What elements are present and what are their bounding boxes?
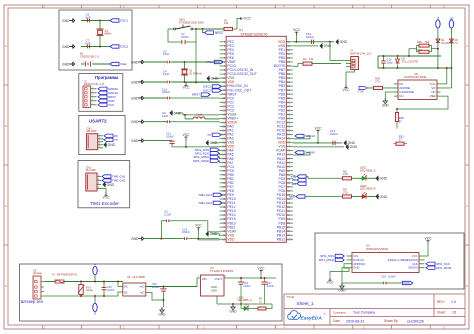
svg-text:VCC: VCC	[342, 88, 350, 92]
svg-text:79: 79	[287, 153, 290, 157]
svg-text:GND: GND	[131, 139, 139, 143]
svg-text:A: A	[466, 44, 468, 48]
wire vdd row SWD	[293, 142, 342, 144]
diode D6	[449, 39, 453, 42]
svg-text:35: 35	[222, 177, 225, 181]
svg-text:65: 65	[287, 96, 290, 100]
svg-text:12: 12	[222, 84, 225, 88]
svg-text:20: 20	[222, 116, 225, 120]
svg-text:MF-PSMF300/TW: MF-PSMF300/TW	[57, 273, 77, 276]
capacitor C6	[81, 20, 100, 22]
svg-text:REV:: REV:	[437, 300, 445, 304]
inductor L1	[185, 118, 193, 120]
svg-text:100nF: 100nF	[182, 230, 190, 234]
svg-text:GND: GND	[131, 237, 139, 241]
svg-text:25: 25	[222, 137, 225, 141]
svg-text:61: 61	[287, 80, 290, 84]
svg-text:B1: B1	[449, 16, 453, 20]
node junction SW1b	[202, 28, 204, 30]
EasyEDA logo	[288, 311, 301, 320]
net flag TIM1-CH2 (box)	[102, 179, 111, 182]
resistor R26	[419, 44, 429, 47]
svg-text:100p: 100p	[387, 60, 393, 64]
svg-text:VCC: VCC	[195, 224, 203, 228]
capacitor C16b	[240, 278, 242, 282]
svg-text:49: 49	[222, 233, 225, 237]
svg-text:70: 70	[287, 116, 290, 120]
resistor R1	[224, 27, 233, 30]
svg-text:87: 87	[287, 185, 290, 189]
svg-text:OSC2: OSC2	[120, 45, 129, 49]
svg-text:TCLLZ15VTR: TCLLZ15VTR	[402, 59, 419, 63]
svg-text:U1: U1	[239, 28, 243, 32]
svg-text:52: 52	[287, 44, 290, 48]
net flags J2	[98, 87, 107, 90]
wire WP GND down	[330, 264, 349, 277]
svg-text:TIM1-CH1: TIM1-CH1	[198, 193, 212, 197]
svg-text:100nF: 100nF	[181, 35, 189, 39]
svg-text:44: 44	[222, 213, 225, 217]
wire OSC2	[100, 46, 110, 48]
svg-text:GND: GND	[107, 183, 115, 187]
svg-text:95: 95	[287, 217, 290, 221]
gnd net flag SWD b	[293, 146, 344, 148]
svg-text:GND: GND	[131, 96, 139, 100]
connector J7	[351, 57, 359, 70]
svg-text:53: 53	[287, 48, 290, 52]
svg-text:10k: 10k	[309, 57, 314, 61]
wire VIN	[197, 278, 201, 287]
svg-text:TX: TX	[207, 133, 211, 137]
svg-text:N: N	[93, 312, 97, 314]
svg-text:54: 54	[287, 52, 290, 56]
net flag led1	[297, 175, 306, 178]
svg-text:Штекер зел: Штекер зел	[21, 299, 44, 304]
svg-text:72: 72	[287, 124, 290, 128]
svg-text:HDR-M-2.54_1x3: HDR-M-2.54_1x3	[350, 51, 371, 55]
net flag SPI1_SCK	[210, 152, 219, 155]
net flag +VCC	[233, 19, 240, 30]
svg-text:D: D	[5, 284, 7, 288]
svg-text:91: 91	[287, 201, 290, 205]
diode D4	[436, 39, 440, 42]
net flag OSC1	[110, 19, 119, 22]
svg-text:31: 31	[222, 161, 225, 165]
wire flash gnd	[342, 268, 347, 283]
svg-text:75: 75	[287, 137, 290, 141]
svg-text:GND: GND	[382, 104, 390, 108]
wire row62	[172, 61, 220, 63]
module U5 HLK-5M05	[123, 283, 146, 296]
svg-text:SPI1_MOSI: SPI1_MOSI	[436, 266, 452, 270]
svg-text:63: 63	[287, 88, 290, 92]
svg-text:80: 80	[287, 157, 290, 161]
connector CN2	[86, 173, 97, 191]
svg-text:29: 29	[222, 153, 225, 157]
gnd net flag top a	[336, 40, 339, 44]
svg-text:HDR-M-2.54_1x5: HDR-M-2.54_1x5	[84, 82, 105, 86]
svg-text:67: 67	[287, 104, 290, 108]
svg-text:PB12: PB12	[277, 237, 285, 241]
svg-text:100nF: 100nF	[388, 275, 396, 279]
svg-text:10: 10	[222, 76, 225, 80]
gnd net flag VSSA	[170, 111, 173, 115]
svg-text:74: 74	[287, 132, 290, 136]
wire neutral rail	[44, 292, 123, 296]
capacitor C19	[342, 282, 384, 284]
MCU U1 body	[226, 36, 286, 242]
svg-text:LED-0805_G: LED-0805_G	[360, 168, 376, 172]
ground gnd2 power	[232, 304, 234, 307]
svg-text:VCC: VCC	[102, 196, 110, 200]
svg-text:28: 28	[222, 149, 225, 153]
svg-text:GND: GND	[159, 313, 167, 317]
svg-text:73: 73	[287, 128, 290, 132]
gnd net flag pin10	[207, 76, 210, 80]
svg-text:TC1262-3.3VDETR: TC1262-3.3VDETR	[210, 269, 233, 273]
svg-text:2.2uF: 2.2uF	[164, 212, 171, 216]
svg-text:99: 99	[287, 233, 290, 237]
wire U8 vee	[397, 96, 448, 109]
svg-text:62: 62	[287, 84, 290, 88]
svg-text:100: 100	[287, 237, 292, 241]
svg-text:64: 64	[287, 92, 290, 96]
svg-text:STM32F103VET6: STM32F103VET6	[241, 32, 268, 36]
capacitor C2 loop	[168, 29, 182, 42]
capacitor C4	[165, 81, 167, 83]
svg-text:Your Company: Your Company	[353, 311, 375, 315]
gnd net flag VCAP bottom	[206, 232, 209, 236]
wire U8 vcc up	[441, 68, 447, 84]
svg-text:96: 96	[287, 221, 290, 225]
svg-text:38: 38	[222, 189, 225, 193]
svg-text:HCNW0130-500E: HCNW0130-500E	[404, 75, 427, 79]
svg-text:270: 270	[343, 172, 348, 176]
capacitor C16	[163, 287, 165, 289]
svg-text:B: B	[466, 124, 468, 128]
crystal X3	[99, 21, 101, 30]
svg-text:36: 36	[222, 181, 225, 185]
svg-text:TIM1-CH2: TIM1-CH2	[198, 201, 212, 205]
svg-text:B: B	[5, 124, 7, 128]
wire U8 vo	[441, 87, 452, 89]
gnd flag CN2	[103, 183, 106, 187]
svg-text:45: 45	[222, 217, 225, 221]
svg-text:VCC: VCC	[424, 237, 432, 241]
svg-text:SPI1_MOSI: SPI1_MOSI	[193, 159, 209, 163]
svg-text:VCC: VCC	[314, 126, 322, 130]
net flag SPI1_MISO	[210, 155, 219, 158]
svg-text:AC: AC	[124, 284, 128, 288]
svg-text:22: 22	[222, 124, 225, 128]
svg-text:Sheet_1: Sheet_1	[297, 301, 315, 306]
wire vertical B	[450, 29, 452, 88]
capacitor C14	[183, 238, 185, 240]
capacitor C9	[165, 121, 167, 123]
connector CN1	[86, 134, 97, 150]
wire SW1 to R1	[196, 28, 224, 30]
svg-text:VCC: VCC	[257, 266, 265, 270]
net flag SPI1_SCK (flash)	[426, 262, 435, 265]
net flag TX	[104, 138, 113, 141]
wire line rail	[64, 281, 123, 283]
svg-text:DI(IO0): DI(IO0)	[409, 266, 418, 270]
capacitor C17	[264, 278, 266, 282]
ground gnd1 power	[161, 307, 163, 310]
svg-text:100nF: 100nF	[267, 285, 274, 288]
svg-text:76: 76	[287, 141, 290, 145]
svg-text:100nF: 100nF	[330, 132, 338, 136]
capacitor C20	[383, 56, 385, 61]
svg-text:GND: GND	[108, 143, 116, 147]
svg-text:100nF: 100nF	[162, 90, 170, 94]
svg-text:18: 18	[222, 108, 225, 112]
svg-text:Sheet:: Sheet:	[437, 311, 446, 315]
resistor R9	[343, 195, 352, 198]
node junction x1 top	[184, 61, 186, 63]
port flag line	[93, 266, 97, 274]
svg-text:W25Q16JVSMQ: W25Q16JVSMQ	[366, 247, 389, 251]
svg-text:17: 17	[222, 104, 225, 108]
svg-text:VEE: VEE	[430, 94, 436, 98]
capacitor C7	[81, 46, 100, 48]
svg-text:1.0: 1.0	[451, 300, 456, 304]
node junction SW1a	[195, 28, 197, 30]
svg-text:97: 97	[287, 225, 290, 229]
MCU U1 right pins	[274, 40, 293, 242]
svg-text:47: 47	[222, 225, 225, 229]
svg-text:A: A	[5, 44, 7, 48]
svg-text:R26: R26	[417, 40, 422, 44]
net flag pc7	[297, 182, 306, 185]
wire OSC1	[100, 20, 110, 22]
wire led1	[306, 177, 342, 179]
svg-text:GND: GND	[380, 195, 388, 199]
svg-text:50: 50	[222, 237, 225, 241]
svg-text:46: 46	[222, 221, 225, 225]
svg-text:88: 88	[287, 189, 290, 193]
wire -VO down	[146, 293, 162, 301]
svg-text:VIN: VIN	[202, 277, 207, 281]
svg-text:-VO: -VO	[140, 290, 145, 294]
battery B1	[81, 63, 85, 65]
svg-text:DB-9AW: DB-9AW	[87, 129, 97, 133]
svg-text:TCP: TCP	[358, 89, 364, 93]
net flag TIM1-CH1 (mcu)	[213, 193, 222, 196]
svg-text:93: 93	[287, 209, 290, 213]
switch SW1	[168, 28, 174, 30]
net flag led2	[296, 195, 305, 198]
svg-text:GND: GND	[131, 60, 139, 64]
wire U4 gnd down	[216, 296, 218, 304]
svg-text:VCC: VCC	[293, 28, 301, 32]
svg-text:VCC: VCC	[326, 281, 334, 285]
svg-text:15: 15	[222, 96, 225, 100]
svg-text:270: 270	[343, 190, 348, 194]
wire vdd top	[293, 41, 334, 43]
wire gnd rail 2	[217, 303, 272, 305]
gnd net flag SWD a	[344, 141, 347, 145]
svg-text:TITLE:: TITLE:	[287, 295, 296, 299]
svg-text:42: 42	[222, 205, 225, 209]
svg-text:GND: GND	[211, 289, 217, 293]
svg-text:OSC2: OSC2	[203, 89, 212, 93]
resistor R8	[343, 177, 352, 180]
zener D5	[397, 56, 399, 59]
svg-text:41: 41	[222, 201, 225, 205]
svg-text:EasyEDA: EasyEDA	[301, 315, 323, 321]
svg-text:81: 81	[287, 161, 290, 165]
port flag up A	[436, 20, 440, 28]
svg-text:GND: GND	[353, 266, 359, 270]
net flag OSC_IN	[212, 85, 221, 88]
svg-text:77: 77	[287, 145, 290, 149]
net flag RX	[104, 134, 113, 137]
resistor R29	[374, 86, 383, 89]
MCU U1 left pins	[220, 40, 257, 242]
svg-text:34: 34	[222, 173, 225, 177]
svg-text:66: 66	[287, 100, 290, 104]
svg-text:27: 27	[399, 119, 402, 123]
svg-text:56k: 56k	[425, 40, 430, 44]
net flag SPI1_MOSI (flash)	[426, 266, 435, 269]
svg-text:19: 19	[222, 112, 225, 116]
svg-text:IVCC: IVCC	[403, 281, 410, 285]
wire vertical A	[437, 29, 439, 69]
svg-text:32: 32	[222, 165, 225, 169]
optocoupler U8 body	[398, 80, 437, 100]
svg-text:51: 51	[287, 40, 290, 44]
svg-text:12pF: 12pF	[163, 52, 170, 56]
resistor R28	[419, 50, 429, 53]
svg-text:VCC: VCC	[182, 133, 190, 137]
port flag up B	[449, 20, 453, 28]
svg-text:37: 37	[222, 185, 225, 189]
svg-text:16: 16	[222, 100, 225, 104]
group box power supply	[20, 264, 282, 321]
LED2 red	[362, 194, 366, 198]
capacitor C10	[165, 97, 167, 99]
svg-text:GND: GND	[339, 289, 347, 293]
svg-text:13: 13	[222, 88, 225, 92]
svg-text:Company:: Company:	[333, 310, 346, 314]
svg-text:26: 26	[222, 141, 225, 145]
svg-text:98: 98	[287, 229, 290, 233]
ground flash	[341, 283, 343, 286]
svg-text:Vbat: Vbat	[207, 60, 213, 64]
varistor RV1	[80, 282, 82, 285]
svg-text:NRST: NRST	[192, 93, 200, 97]
svg-text:U6: U6	[127, 275, 131, 279]
svg-text:R2: R2	[303, 57, 307, 61]
wire rail bottom right	[378, 67, 451, 69]
net flag OSC_OUT	[212, 89, 221, 92]
svg-text:21: 21	[222, 120, 225, 124]
node junction OSC1	[99, 20, 101, 22]
svg-text:32.768kHz: 32.768kHz	[189, 72, 203, 76]
svg-text:Surge: Surge	[86, 288, 93, 292]
svg-text:1/1: 1/1	[452, 311, 457, 315]
svg-text:D: D	[466, 284, 468, 288]
connector J2	[83, 86, 91, 108]
vcc symbol J7	[346, 70, 355, 86]
svg-text:GND: GND	[62, 19, 70, 23]
svg-text:A1: A1	[436, 16, 440, 20]
svg-text:C: C	[466, 204, 468, 208]
svg-text:GND: GND	[131, 120, 139, 124]
wire led2	[305, 196, 342, 198]
svg-text:55: 55	[287, 56, 290, 60]
net flag TIM1-CH1 (box)	[102, 175, 111, 178]
svg-text:GND: GND	[62, 45, 70, 49]
net flag TCP	[359, 87, 367, 90]
svg-text:92: 92	[287, 205, 290, 209]
svg-text:10k: 10k	[224, 21, 229, 25]
node junction OSC2	[99, 46, 101, 48]
svg-text:CR2032-BS-2-1: CR2032-BS-2-1	[80, 55, 100, 59]
svg-text:GND: GND	[131, 80, 139, 84]
net flag SPI1_MOSI	[210, 159, 219, 162]
wire J7 pin1 to gnd	[330, 42, 346, 61]
svg-text:C19: C19	[381, 275, 386, 279]
svg-text:GND: GND	[211, 285, 217, 289]
flash U2 body	[352, 253, 419, 273]
group box TIM1 Encoder	[78, 161, 130, 208]
svg-text:12pF: 12pF	[163, 72, 170, 76]
wire +VO rail	[146, 286, 197, 288]
gnd flag CN1	[104, 143, 107, 147]
capacitor C13	[332, 141, 334, 145]
svg-text:100nF: 100nF	[306, 35, 314, 39]
wire resistor loop	[417, 46, 420, 52]
net flag Vbat row (pin6)	[214, 60, 223, 63]
svg-text:14: 14	[222, 92, 225, 96]
node junction bl	[160, 238, 162, 240]
resistor R2	[293, 65, 298, 67]
svg-text:Штекер: Штекер	[33, 271, 43, 275]
resistor R4	[249, 308, 259, 310]
svg-text:AC: AC	[124, 290, 128, 294]
svg-text:69: 69	[287, 112, 290, 116]
svg-text:USART2: USART2	[89, 119, 107, 124]
svg-text:RH-4AW: RH-4AW	[86, 168, 97, 172]
resistor R31	[394, 143, 397, 145]
net flag NRST (top)	[203, 29, 205, 33]
svg-text:VCC: VCC	[182, 86, 190, 90]
net flag SPI1_MISO (flash)	[335, 258, 344, 261]
svg-text:GND: GND	[62, 62, 70, 66]
node junction c12	[329, 41, 331, 43]
svg-text:OSC1: OSC1	[120, 19, 129, 23]
capacitor C3	[165, 61, 167, 63]
group box Programm	[79, 74, 123, 112]
capacitor C15	[103, 282, 105, 288]
svg-text:11: 11	[223, 80, 226, 84]
svg-text:24: 24	[222, 132, 225, 136]
fuse F1	[44, 281, 55, 283]
svg-text:10uH: 10uH	[196, 112, 202, 116]
svg-text:Date:: Date:	[333, 319, 341, 323]
node junction x1 bottom	[184, 81, 186, 83]
svg-text:+VCC: +VCC	[242, 17, 252, 21]
LED3 green	[240, 304, 242, 309]
svg-text:GND: GND	[324, 44, 332, 48]
svg-text:C: C	[5, 204, 7, 208]
svg-text:GND: GND	[350, 145, 358, 149]
svg-text:58: 58	[287, 68, 290, 72]
LED1 green	[362, 176, 366, 180]
net flag SWDIO	[295, 151, 304, 154]
